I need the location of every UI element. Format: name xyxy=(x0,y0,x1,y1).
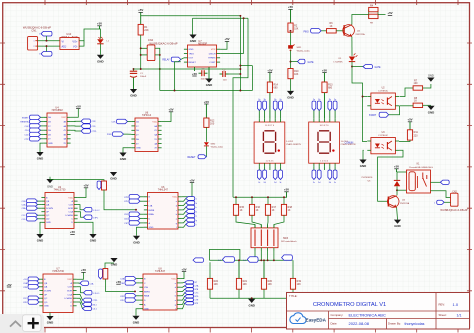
junction xyxy=(238,259,240,261)
wire xyxy=(78,212,84,218)
junction xyxy=(263,259,265,261)
wire U8 gnd xyxy=(136,309,139,316)
wire xyxy=(254,251,256,260)
ic U6 74HL547 xyxy=(148,193,179,230)
resistor R23 xyxy=(102,181,107,190)
svg-text:VCC: VCC xyxy=(68,197,73,199)
svg-text:C1D: C1D xyxy=(124,219,129,221)
svg-text:C1Y3EUC: C1Y3EUC xyxy=(378,90,389,92)
svg-text:g: g xyxy=(196,220,197,222)
svg-text:CONT: CONT xyxy=(209,62,216,64)
wire xyxy=(136,282,139,284)
svg-text:B7D: B7D xyxy=(195,296,199,298)
resistor R24 xyxy=(103,269,108,280)
wire xyxy=(396,172,398,180)
wire xyxy=(140,218,144,220)
wire xyxy=(38,301,40,303)
wire U4 gnd xyxy=(40,143,43,152)
svg-text:CLR: CLR xyxy=(69,205,74,207)
svg-text:PIN3: PIN3 xyxy=(303,32,309,34)
svg-text:Sheet:: Sheet: xyxy=(439,313,447,317)
ground xyxy=(119,153,126,157)
wire xyxy=(124,133,132,135)
net flag segment xyxy=(324,166,326,170)
ic U6 74HC14 xyxy=(135,118,158,152)
svg-text:+5V: +5V xyxy=(6,283,11,287)
wire U7 gnd xyxy=(49,313,51,317)
wire xyxy=(38,278,40,280)
svg-text:1K: 1K xyxy=(414,100,417,103)
svg-text:74HLS730: 74HLS730 xyxy=(54,189,66,192)
svg-text:C2A: C2A xyxy=(23,282,28,285)
svg-text:+5V: +5V xyxy=(288,5,293,9)
svg-text:10K: 10K xyxy=(294,28,299,31)
svg-text:LTA: LTA xyxy=(149,204,153,207)
ic U2 74HLS730 xyxy=(45,193,74,229)
ground xyxy=(132,316,139,320)
wire xyxy=(182,183,192,197)
svg-text:2: 2 xyxy=(34,46,35,48)
diode D1 xyxy=(349,57,355,62)
wire xyxy=(79,41,84,46)
svg-text:2N2222A: 2N2222A xyxy=(356,33,366,36)
wire U6 gnd xyxy=(123,148,131,153)
svg-text:GND: GND xyxy=(120,157,126,161)
wire xyxy=(273,251,275,260)
junction xyxy=(134,290,136,292)
svg-text:+5V: +5V xyxy=(224,37,229,41)
wire xyxy=(352,66,363,68)
wire xyxy=(140,222,144,224)
net flag VBUS xyxy=(41,31,52,36)
svg-text:BI/RB: BI/RB xyxy=(149,210,155,212)
ic U4 74HC86M xyxy=(47,113,67,147)
svg-text:+5V: +5V xyxy=(284,188,289,192)
svg-text:10K: 10K xyxy=(268,283,273,286)
wire xyxy=(38,282,40,284)
svg-text:QA: QA xyxy=(46,204,50,207)
junction xyxy=(239,90,241,92)
resistor R2 xyxy=(288,23,293,32)
easyeda logo xyxy=(290,313,306,324)
svg-text:3c: 3c xyxy=(258,182,260,184)
wire xyxy=(41,121,44,123)
svg-text:C7D: C7D xyxy=(124,201,129,203)
ic U8 74HL547 xyxy=(143,274,177,310)
net flag segment xyxy=(317,101,321,111)
wire xyxy=(155,54,160,56)
svg-text:QC: QC xyxy=(46,215,50,217)
net flag segment xyxy=(279,101,283,111)
wire matrix top rail xyxy=(233,196,287,198)
svg-text:22K: 22K xyxy=(144,29,149,32)
resistor R7 xyxy=(413,86,423,90)
svg-text:1-LCD1: 1-LCD1 xyxy=(341,141,349,143)
svg-text:RESETA: RESETA xyxy=(20,121,29,124)
wire xyxy=(423,104,431,106)
net flag segment xyxy=(312,101,316,111)
wire xyxy=(38,45,60,47)
svg-text:2022-08-08: 2022-08-08 xyxy=(349,321,370,326)
svg-text:LOADH: LOADH xyxy=(64,297,72,300)
svg-text:74HLS730: 74HLS730 xyxy=(52,270,64,273)
svg-text:C1D: C1D xyxy=(21,219,26,221)
wire xyxy=(155,48,160,90)
wire xyxy=(38,286,40,288)
svg-text:GND: GND xyxy=(46,222,51,224)
wire xyxy=(38,301,40,303)
junction xyxy=(46,45,48,47)
junction xyxy=(273,259,275,261)
svg-text:GATE: GATE xyxy=(307,61,314,64)
wire xyxy=(182,207,186,210)
svg-text:CTP: CTP xyxy=(24,139,29,141)
junction xyxy=(159,68,161,70)
svg-text:C5A11-10SR7N: C5A11-10SR7N xyxy=(286,143,301,146)
svg-text:C1D: C1D xyxy=(92,126,97,128)
wire xyxy=(267,251,269,260)
wire xyxy=(283,197,285,204)
svg-text:GND: GND xyxy=(110,177,116,181)
resistor R11 xyxy=(407,130,412,140)
wire xyxy=(229,73,241,75)
wire xyxy=(46,46,48,51)
wire xyxy=(378,14,386,16)
switch SW2 xyxy=(204,142,209,145)
wire xyxy=(78,205,84,210)
wire xyxy=(181,293,185,296)
svg-text:C2C: C2C xyxy=(23,298,28,300)
wire xyxy=(38,218,42,220)
wire xyxy=(105,263,114,269)
svg-text:74HC14: 74HC14 xyxy=(142,114,152,117)
wire xyxy=(38,286,40,288)
svg-text:CTPL: CTPL xyxy=(93,218,99,220)
wire xyxy=(400,88,414,97)
svg-text:1b: 1b xyxy=(318,99,320,101)
svg-text:C1Y3EUC: C1Y3EUC xyxy=(378,135,389,137)
svg-text:EasyEDA: EasyEDA xyxy=(306,318,327,323)
svg-text:thonynicolas: thonynicolas xyxy=(405,322,425,326)
wire gnd loop xyxy=(193,17,249,19)
ground xyxy=(46,316,53,320)
svg-text:GND: GND xyxy=(428,74,434,78)
svg-text:+5V: +5V xyxy=(83,184,88,188)
wire xyxy=(162,112,171,122)
svg-text:2d: 2d xyxy=(329,182,331,184)
wire xyxy=(182,220,186,223)
wire xyxy=(363,96,368,98)
junction xyxy=(133,68,135,70)
svg-text:C2B: C2B xyxy=(23,287,28,289)
wire disch loop xyxy=(220,53,244,55)
svg-text:680: 680 xyxy=(274,87,279,90)
svg-text:VCC: VCC xyxy=(211,49,216,51)
svg-text:GND: GND xyxy=(360,164,366,168)
svg-text:GND: GND xyxy=(136,148,141,150)
wire U6 gnd xyxy=(137,227,144,236)
junction xyxy=(140,47,142,49)
svg-text:TITLE:: TITLE: xyxy=(289,294,298,298)
svg-text:BOR: BOR xyxy=(68,208,73,210)
ground xyxy=(36,234,43,238)
svg-text:1K: 1K xyxy=(272,209,275,212)
ground xyxy=(427,106,434,110)
svg-text:1.0: 1.0 xyxy=(453,302,459,307)
wire xyxy=(77,272,84,279)
svg-text:C7PL: C7PL xyxy=(93,300,99,302)
svg-text:VCC: VCC xyxy=(67,279,72,281)
display LCD2 7-segment xyxy=(254,122,285,163)
wire xyxy=(79,29,100,41)
junction xyxy=(254,259,256,261)
svg-text:UP: UP xyxy=(44,294,48,296)
svg-text:Company:: Company: xyxy=(331,313,344,317)
wire xyxy=(71,120,81,122)
svg-text:SW2: SW2 xyxy=(211,144,217,146)
net flag xyxy=(28,277,39,281)
svg-text:SW1: SW1 xyxy=(297,47,303,49)
ui chevron xyxy=(10,321,21,326)
ground xyxy=(110,258,117,262)
svg-text:+5V: +5V xyxy=(192,72,197,76)
svg-text:C3A: C3A xyxy=(22,207,27,210)
svg-text:REV:: REV: xyxy=(439,303,446,307)
svg-text:1 2 3 4 5: 1 2 3 4 5 xyxy=(320,161,329,163)
ground (right of U7 bottom) xyxy=(208,67,210,79)
svg-text:DIP-switchblock: DIP-switchblock xyxy=(281,240,297,243)
resistor R13 xyxy=(322,82,327,93)
wire matrix mid rail xyxy=(209,259,292,261)
ground xyxy=(189,35,196,39)
ic U7 74HLS730 xyxy=(43,274,73,313)
net flag CN2 xyxy=(437,200,445,204)
net flag segment xyxy=(313,166,315,170)
wire xyxy=(181,289,185,291)
junction xyxy=(140,54,142,56)
svg-text:*blabla_todos: *blabla_todos xyxy=(211,145,224,148)
wire xyxy=(140,35,142,69)
resistor R15 xyxy=(233,204,238,215)
wire xyxy=(336,30,344,32)
net flag segment xyxy=(258,166,260,170)
ground xyxy=(133,236,140,240)
ground xyxy=(46,179,53,183)
svg-text:QB: QB xyxy=(44,283,48,285)
ground xyxy=(248,299,255,303)
svg-text:GND: GND xyxy=(190,39,196,43)
svg-text:c: c xyxy=(196,207,197,209)
svg-text:GND: GND xyxy=(189,49,194,51)
wire xyxy=(423,84,431,88)
svg-text:QB: QB xyxy=(46,201,50,203)
svg-text:GND: GND xyxy=(133,240,139,244)
svg-text:+5V: +5V xyxy=(322,68,327,72)
net flag segment xyxy=(318,166,320,170)
net flag xyxy=(125,281,136,285)
svg-text:PasswHGB-GNGE-5HG: PasswHGB-GNGE-5HG xyxy=(409,167,433,169)
svg-text:QD: QD xyxy=(44,302,48,304)
svg-text:DOWN: DOWN xyxy=(46,208,53,210)
wire cluster1 xyxy=(104,190,136,210)
svg-text:C1D: C1D xyxy=(24,135,29,137)
wire xyxy=(267,215,269,228)
net flag xyxy=(125,294,136,298)
capacitor C1 xyxy=(133,69,135,71)
net flag xyxy=(27,202,38,206)
wire xyxy=(290,79,292,91)
svg-text:C7R: C7R xyxy=(124,197,129,199)
svg-text:10K: 10K xyxy=(294,73,299,76)
wire xyxy=(362,150,365,159)
wire U3 to Q6 base xyxy=(378,150,403,201)
wire xyxy=(78,188,86,198)
svg-text:ELECTRONICA ABC: ELECTRONICA ABC xyxy=(349,312,386,317)
net flag segment xyxy=(273,101,277,111)
net flag segment xyxy=(257,101,261,111)
resistor R10 xyxy=(288,69,293,79)
svg-text:1/1: 1/1 xyxy=(457,314,462,318)
svg-text:VI: VI xyxy=(62,40,65,43)
svg-text:CLK: CLK xyxy=(24,126,29,128)
svg-text:RELAY: RELAY xyxy=(162,59,170,62)
svg-text:3c: 3c xyxy=(334,182,336,184)
svg-text:10K: 10K xyxy=(243,283,248,286)
svg-text:GND: GND xyxy=(394,224,400,228)
resistor R1 xyxy=(138,24,143,35)
svg-text:NE555P: NE555P xyxy=(198,43,208,46)
wire out run xyxy=(175,62,181,91)
svg-text:C5A11-10SR7N: C5A11-10SR7N xyxy=(341,143,356,146)
wire xyxy=(99,44,101,55)
svg-text:1K: 1K xyxy=(240,209,243,212)
svg-text:GND: GND xyxy=(248,303,254,307)
svg-text:+5V: +5V xyxy=(168,108,173,112)
svg-text:LOADH: LOADH xyxy=(65,214,73,217)
dip switch SW3 xyxy=(251,228,278,248)
net flag GATE (switch) xyxy=(298,59,306,64)
svg-text:GND: GND xyxy=(149,227,154,229)
ui plus button xyxy=(28,318,39,329)
wire xyxy=(38,200,42,202)
svg-text:1K: 1K xyxy=(256,209,259,212)
svg-text:GND: GND xyxy=(287,96,293,100)
svg-text:10 9 8 7 6: 10 9 8 7 6 xyxy=(265,125,275,127)
ground xyxy=(89,234,96,238)
wire xyxy=(236,215,255,228)
resistor R20 xyxy=(261,278,266,289)
wire xyxy=(41,125,44,127)
svg-text:WUSBJQKAC-6-DB-dP: WUSBJQKAC-6-DB-dP xyxy=(23,25,51,29)
wire xyxy=(260,251,262,260)
net flag segment xyxy=(280,166,282,170)
junction xyxy=(174,90,176,92)
svg-text:C3B: C3B xyxy=(120,283,125,285)
svg-text:C1B: C1B xyxy=(22,201,27,203)
wire cluster2 to U8 xyxy=(105,279,135,291)
net flag xyxy=(28,296,39,300)
svg-text:VO-: VO- xyxy=(73,46,78,49)
wire xyxy=(136,278,139,280)
svg-text:1K: 1K xyxy=(288,209,291,212)
wire xyxy=(444,201,450,203)
ground xyxy=(394,220,401,224)
svg-text:LTA: LTA xyxy=(144,286,148,289)
svg-text:1b: 1b xyxy=(274,99,276,101)
wire under U7 xyxy=(134,68,241,70)
net flag xyxy=(129,221,140,225)
wire xyxy=(38,204,42,206)
wire xyxy=(140,213,144,215)
ui zoom panel xyxy=(0,314,44,333)
wire xyxy=(46,36,48,41)
svg-text:2d: 2d xyxy=(318,182,320,184)
resistor R14 xyxy=(267,82,272,93)
wire xyxy=(38,40,60,42)
wire matrix bottom rail xyxy=(210,297,293,299)
junction xyxy=(251,196,253,198)
display LCD1 7-segment xyxy=(309,122,340,163)
net flag row B xyxy=(223,257,235,263)
svg-text:TRIG: TRIG xyxy=(189,53,195,55)
title block xyxy=(287,293,470,330)
svg-text:C1A: C1A xyxy=(90,283,95,286)
svg-text:10K: 10K xyxy=(297,283,302,286)
wire xyxy=(77,287,84,293)
junction xyxy=(267,196,269,198)
svg-text:1b: 1b xyxy=(264,99,266,101)
wire xyxy=(220,41,227,49)
ground xyxy=(427,78,434,82)
svg-text:+5V: +5V xyxy=(97,22,102,26)
junction xyxy=(239,15,241,17)
net flag xyxy=(129,216,140,220)
wire xyxy=(263,289,265,298)
svg-text:1: 1 xyxy=(34,41,35,43)
svg-text:GATE: GATE xyxy=(374,66,381,69)
junction xyxy=(290,61,292,63)
wire xyxy=(181,272,184,279)
wire xyxy=(182,199,186,202)
net flag xyxy=(129,195,140,199)
svg-text:d: d xyxy=(196,203,197,205)
net flag xyxy=(27,217,38,221)
wire xyxy=(38,214,42,216)
junction xyxy=(239,68,241,70)
svg-text:CLR: CLR xyxy=(68,287,73,289)
wire xyxy=(140,200,144,202)
svg-text:C1C: C1C xyxy=(21,215,26,217)
net flag segment xyxy=(274,166,276,170)
svg-text:QC: QC xyxy=(44,298,48,300)
wire xyxy=(38,282,40,284)
wire xyxy=(291,61,298,63)
wire xyxy=(182,203,186,206)
svg-text:CCA: CCA xyxy=(67,293,72,296)
wire xyxy=(181,300,185,305)
svg-text:LTL2R3K: LTL2R3K xyxy=(333,61,343,63)
svg-text:74HC86M: 74HC86M xyxy=(51,109,62,112)
svg-text:+5V: +5V xyxy=(387,11,392,15)
transistor Q5 2N2222A xyxy=(343,25,355,37)
junction xyxy=(267,259,269,261)
svg-text:VCC: VCC xyxy=(61,117,66,119)
wire xyxy=(182,224,186,227)
svg-text:1K0: 1K0 xyxy=(210,123,215,126)
svg-text:680: 680 xyxy=(328,87,333,90)
wire xyxy=(182,216,186,219)
wire collector xyxy=(352,15,369,25)
